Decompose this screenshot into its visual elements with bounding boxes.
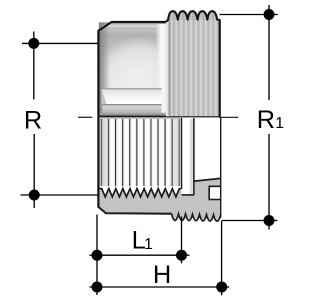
thread texture [166,11,221,116]
dim H line [90,286,230,288]
svg-text:H: H [153,261,171,289]
centre band under socket [99,113,166,116]
svg-text:R: R [24,107,42,135]
socket ledge front edge [103,104,162,106]
top-left chamfer edge [98,22,166,31]
socket ledge back edge [102,88,162,90]
dim R vertical line lower [33,134,35,208]
sectioned wall grey silhouette [98,117,220,221]
dot L1 left [92,250,103,261]
groove notch outline [209,186,221,199]
centre boundary dark band [99,116,221,118]
internal thread stripes [99,119,180,186]
dot R1 top [264,9,275,20]
centreline dash left [78,116,92,118]
central bright glow [97,36,181,108]
slot right wall shading [190,119,193,194]
dot H left [92,282,103,293]
dim R vertical line upper [33,32,35,100]
centreline dash right [219,116,238,118]
scallop thread profile outline (bottom) [172,214,221,221]
thread crest outline (wavy top) [166,11,221,22]
dot R1 bottom [264,215,275,226]
dim R top extension [22,42,98,44]
left inner shadow [99,22,110,115]
H right extension line [221,221,223,295]
right inner wall highlight [155,24,168,116]
slot left edge [181,118,183,189]
dim R1 vertical upper [268,5,270,100]
dot R bottom [29,190,40,201]
slot bottom edge [182,194,195,196]
dim R1 top extension [220,14,278,16]
dim R1 bottom extension [222,220,278,222]
socket ledge left bevel [102,89,107,104]
socket ledge top face [102,89,162,104]
dot H right [216,282,227,293]
dim R bottom extension [21,194,99,196]
white band with thread teeth (zigzag) [99,186,180,197]
thread teeth outline [99,189,180,197]
top inner shading band [100,24,164,27]
body right face edge (bottom half) [220,117,222,217]
svg-text:1: 1 [144,236,153,253]
socket ledge front face [103,105,162,112]
dim R1 vertical lower [268,134,270,230]
L1 left extension line [96,215,98,296]
groove notch (white) [210,187,221,199]
L1 right extension line [181,217,183,264]
dim L1 line [90,254,190,256]
body bottom edge [98,207,171,214]
svg-text:1: 1 [275,115,284,132]
body interior base [99,22,166,115]
slot right edge [193,118,195,195]
svg-text:R: R [257,106,275,134]
step top edge [194,178,220,181]
dot R top [28,38,39,49]
bore slot (white) [182,118,193,194]
body left edge [97,30,99,207]
dot L1 right [176,250,187,261]
seam between body and thread [168,20,171,116]
thread right face edge (top half) [219,20,221,118]
